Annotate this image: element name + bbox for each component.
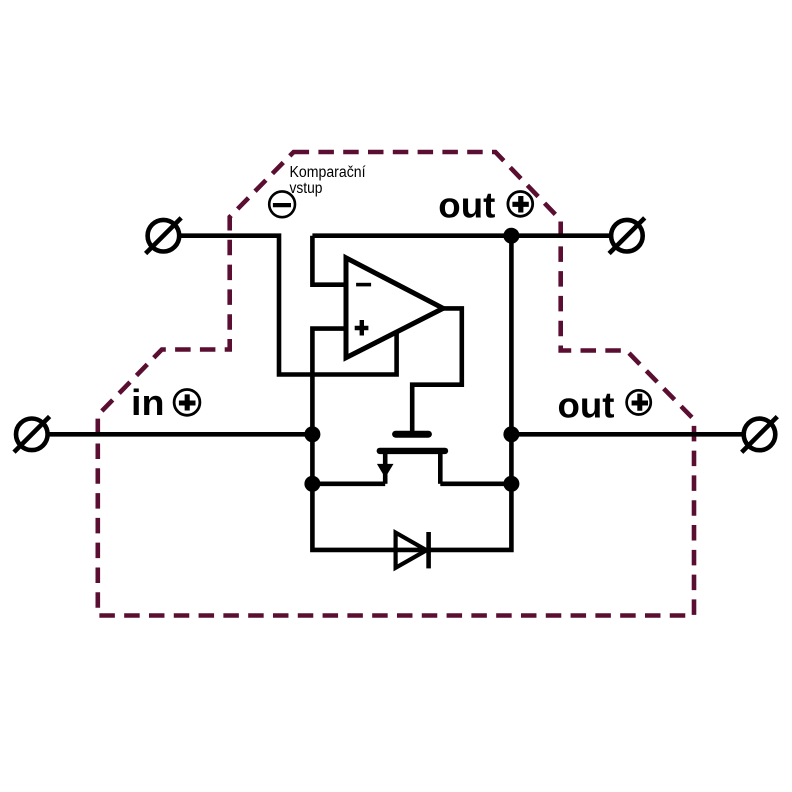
svg-text:in: in — [131, 382, 165, 423]
svg-text:out: out — [558, 385, 615, 426]
svg-text:out: out — [438, 185, 495, 226]
svg-text:vstup: vstup — [290, 180, 323, 197]
svg-text:Komparační: Komparační — [290, 164, 367, 181]
